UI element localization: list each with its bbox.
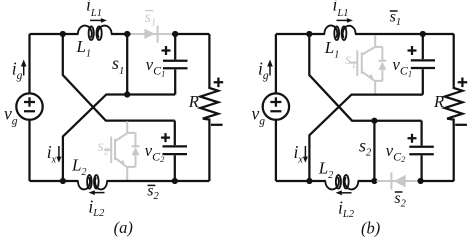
wire bottom rail right segment: [419, 180, 454, 182]
resistor R: [445, 34, 463, 181]
svg-text:vC2: vC2: [386, 141, 406, 164]
wire left vertical upper: [28, 34, 30, 93]
wire cross diagonal 1 (node A to C2 top): [309, 34, 421, 121]
diode s1bar (grey, inactive): [131, 26, 173, 43]
node F junction dot (C2 bottom): [418, 178, 424, 184]
svg-text:(a): (a): [114, 218, 133, 237]
svg-text:iL2: iL2: [338, 198, 355, 220]
svg-text:ix: ix: [294, 142, 304, 166]
R plus sign: [458, 78, 468, 88]
wire bottom rail left segment: [276, 180, 326, 182]
svg-text:s2: s2: [147, 182, 159, 202]
wire cross diagonal 2 (C1 bottom to bottom-left): [63, 95, 175, 182]
node B junction dot (s1 top): [124, 31, 130, 37]
svg-text:s1: s1: [345, 51, 356, 71]
svg-text:L1: L1: [76, 37, 91, 60]
current arrow iL1: [337, 18, 353, 23]
wire branch s1: [126, 34, 128, 95]
label s2bar (black): [394, 190, 406, 210]
wire top rail right of L1: [355, 33, 454, 35]
svg-text:ig: ig: [258, 58, 269, 82]
svg-text:vC1: vC1: [393, 55, 413, 78]
inductor L1: [78, 26, 92, 38]
current arrow ig: [21, 60, 27, 76]
wire top rail left segment: [30, 33, 79, 35]
wire left vertical lower: [28, 120, 30, 181]
wire cross diagonal 2 (C1 bottom to bottom-left): [309, 95, 422, 181]
label s1bar (black): [390, 9, 401, 29]
svg-text:s1: s1: [145, 9, 156, 29]
C2 plus sign: [408, 134, 417, 143]
node C junction dot (C1 top): [420, 31, 426, 37]
R minus sign: [455, 124, 467, 126]
current arrow ix: [56, 146, 61, 163]
svg-text:L2: L2: [71, 155, 86, 178]
wire top rail segment L1 to node B: [111, 33, 131, 35]
wire bottom rail: [30, 180, 79, 182]
capacitor C1: [163, 34, 188, 95]
svg-text:(b): (b): [361, 218, 380, 237]
node D junction dot (s1 bottom): [124, 91, 130, 97]
current arrow iL2: [89, 190, 105, 195]
wire cross diagonal 1 (node A to C2 top): [63, 34, 175, 121]
R plus sign: [214, 78, 224, 88]
capacitor C1: [411, 34, 435, 95]
svg-text:iL1: iL1: [86, 0, 102, 19]
transistor s1 IGBT (grey, inactive): [350, 35, 387, 95]
wire branch s2: [373, 121, 375, 181]
label s1bar (grey): [145, 9, 156, 29]
node A junction dot: [60, 31, 66, 37]
svg-text:vC1: vC1: [146, 55, 166, 78]
svg-text:vC2: vC2: [145, 141, 165, 164]
label s2bar (black): [147, 182, 159, 202]
capacitor C2: [409, 121, 434, 181]
current arrow iL2: [336, 190, 352, 195]
diode s2bar (grey, inactive): [377, 172, 419, 189]
current arrow ig: [267, 60, 273, 76]
source vg U2: [263, 93, 289, 119]
svg-text:s2: s2: [394, 190, 406, 210]
inductor L2: [78, 177, 90, 189]
source vg U1: [16, 93, 42, 119]
R minus sign: [211, 124, 223, 126]
node F junction dot (C2 bottom): [172, 178, 178, 184]
wire left vertical lower: [275, 120, 277, 181]
node G junction dot (s2 top): [371, 118, 377, 124]
svg-text:L1: L1: [324, 38, 339, 61]
svg-text:R: R: [188, 92, 199, 111]
svg-text:ig: ig: [12, 58, 23, 82]
wire top rail right segment: [172, 33, 209, 35]
node H junction dot (s2 bottom): [371, 178, 377, 184]
C1 plus sign: [408, 46, 417, 55]
node E junction dot (bottom left): [306, 178, 312, 184]
svg-text:R: R: [433, 92, 444, 111]
svg-text:iL2: iL2: [88, 197, 105, 219]
svg-text:s1: s1: [390, 9, 401, 29]
node E junction dot (bottom left): [60, 178, 66, 184]
resistor R: [200, 34, 218, 181]
inductor L1: [324, 25, 337, 37]
transistor s2 IGBT (grey, inactive): [104, 121, 139, 181]
svg-text:s2: s2: [359, 135, 372, 158]
current arrow ix: [303, 146, 308, 163]
svg-text:iL1: iL1: [333, 0, 349, 19]
inductor L2: [325, 177, 339, 189]
wire bottom rail L2 to node H: [358, 180, 377, 182]
wire top rail: [276, 33, 325, 35]
C2 plus sign: [161, 133, 170, 142]
svg-text:L2: L2: [318, 158, 333, 181]
capacitor C2: [163, 121, 188, 181]
wire left vertical upper: [275, 34, 277, 93]
svg-text:s1: s1: [112, 53, 124, 77]
C1 plus sign: [162, 46, 171, 55]
node C junction dot (C1 top): [172, 31, 178, 37]
svg-text:ix: ix: [47, 142, 57, 166]
wire bottom rail right of L2: [107, 180, 210, 182]
node A junction dot: [306, 31, 312, 37]
current arrow iL1: [90, 18, 107, 23]
svg-text:s2: s2: [98, 138, 110, 158]
